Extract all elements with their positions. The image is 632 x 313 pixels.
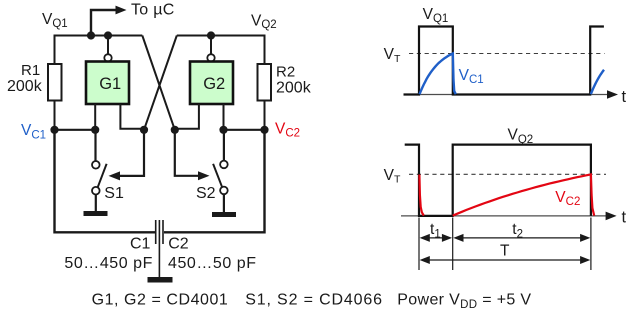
wire G1 input pin right L-shape [120, 104, 144, 129]
gate G1 [86, 62, 129, 105]
wire to microcontroller tap [91, 10, 118, 36]
curve V_C2 charge [453, 174, 595, 215]
svg-text:200k: 200k [7, 78, 43, 95]
dimension T [420, 256, 591, 264]
wire G2 input pin right [223, 104, 225, 130]
arrowhead axis top [607, 90, 618, 99]
arrowhead S1 control [109, 171, 121, 180]
node G2 right input [219, 126, 227, 134]
wire S2 top [223, 130, 225, 161]
wire G2 input pin left L-shape [175, 104, 199, 129]
curve V_C2 spike [419, 175, 423, 216]
wire R2 bottom lead [264, 101, 266, 130]
svg-text:S1: S1 [104, 185, 124, 202]
svg-text:R2: R2 [276, 64, 295, 81]
svg-text:VC2: VC2 [275, 120, 300, 139]
switch S1 contact top [92, 161, 100, 169]
tick t1 left [418, 218, 420, 271]
svg-text:G1, G2 = CD4001: G1, G2 = CD4001 [92, 292, 229, 309]
resistor R1 [48, 64, 62, 101]
tick t1 right [452, 218, 454, 271]
wire V_C1 rail [55, 129, 96, 131]
svg-text:S1, S2 = CD4066: S1, S2 = CD4066 [245, 292, 383, 309]
svg-text:t: t [622, 209, 627, 227]
wire S1 top [94, 130, 96, 161]
svg-text:t2: t2 [512, 221, 523, 241]
svg-text:VC1: VC1 [459, 67, 484, 86]
svg-text:VQ2: VQ2 [251, 12, 277, 31]
wire V_C2 rail [224, 129, 265, 131]
threshold V_T dashed bottom [409, 173, 606, 175]
node junction uC tap [87, 31, 95, 39]
wire diagonal V_Q2 to G1 input [144, 36, 177, 130]
inverter bubble G2 [207, 54, 214, 61]
capacitor shared middle plate [158, 220, 160, 277]
wire top-left V_Q1 [55, 36, 143, 66]
curve V_C1 charge second [591, 70, 604, 94]
wire right column to bottom rail [164, 130, 265, 233]
svg-text:VQ1: VQ1 [423, 6, 449, 25]
switch S2 contact top [220, 161, 228, 169]
svg-text:50…450 pF: 50…450 pF [64, 255, 153, 272]
svg-text:VQ2: VQ2 [508, 127, 534, 146]
wire G1 input pin left [94, 104, 96, 130]
svg-text:t: t [622, 88, 627, 106]
wire diagonal V_Q1 to G2 input [142, 36, 175, 130]
svg-text:t1: t1 [430, 221, 441, 241]
svg-text:VC1: VC1 [21, 122, 46, 141]
ground center capacitor [148, 277, 173, 283]
node G1 right input [140, 126, 148, 134]
gate G2 [190, 62, 233, 105]
wire S1 control [120, 130, 145, 176]
svg-text:VT: VT [384, 167, 401, 186]
node V_C1 at R1 [50, 126, 58, 134]
node G2 left input [171, 126, 179, 134]
wire left column to bottom rail [55, 130, 156, 233]
waveform V_Q2 pulse [405, 145, 591, 216]
svg-text:S2: S2 [196, 185, 216, 202]
dimension t2 [453, 234, 590, 242]
waveform V_Q1 pulse [404, 27, 604, 95]
svg-text:VQ1: VQ1 [42, 11, 68, 30]
svg-text:VT: VT [384, 46, 401, 65]
node junction G1 output [104, 31, 112, 39]
threshold V_T dashed top [409, 53, 605, 55]
switch S2 contact bottom [220, 187, 228, 195]
svg-text:C1: C1 [130, 236, 151, 253]
wire top-right V_Q2 [177, 36, 265, 66]
resistor R2 [258, 64, 272, 101]
svg-text:450…50 pF: 450…50 pF [168, 255, 257, 272]
wire R1 bottom lead [54, 101, 56, 130]
svg-text:G1: G1 [99, 75, 121, 93]
svg-text:R1: R1 [21, 62, 40, 79]
tick T right [590, 218, 592, 271]
ground S2 [212, 212, 236, 217]
node junction G2 output [207, 31, 215, 39]
capacitor C1 plate left [155, 220, 157, 244]
node V_C2 at R2 [260, 126, 268, 134]
inverter bubble G1 [104, 54, 111, 61]
svg-text:VC2: VC2 [555, 189, 580, 208]
wire G1 output lead [107, 36, 109, 55]
svg-text:T: T [500, 242, 510, 259]
switch S1 blade [98, 164, 107, 188]
arrowhead S2 control [198, 171, 210, 180]
ground S1 [84, 211, 108, 216]
svg-text:G2: G2 [203, 75, 225, 93]
node G1 left input [91, 126, 99, 134]
axis t waveform bottom [401, 215, 609, 217]
wire S2 to ground [223, 194, 225, 212]
curve V_C1 charge [420, 54, 456, 95]
arrowhead to uC [116, 6, 127, 15]
svg-text:Power VDD = +5 V: Power VDD = +5 V [397, 292, 531, 312]
svg-text:200k: 200k [276, 80, 312, 97]
switch S2 blade [213, 164, 222, 188]
wire S2 control [175, 130, 199, 176]
dimension t1 [420, 234, 453, 242]
capacitor C2 plate right [162, 220, 164, 244]
wire G2 output lead [210, 36, 212, 55]
axis t waveform top [404, 94, 611, 96]
arrowhead axis bottom [606, 212, 617, 221]
wire S1 to ground [95, 195, 97, 212]
svg-text:To µC: To µC [131, 2, 175, 19]
svg-text:C2: C2 [168, 236, 189, 253]
switch S1 contact bottom [92, 187, 100, 195]
